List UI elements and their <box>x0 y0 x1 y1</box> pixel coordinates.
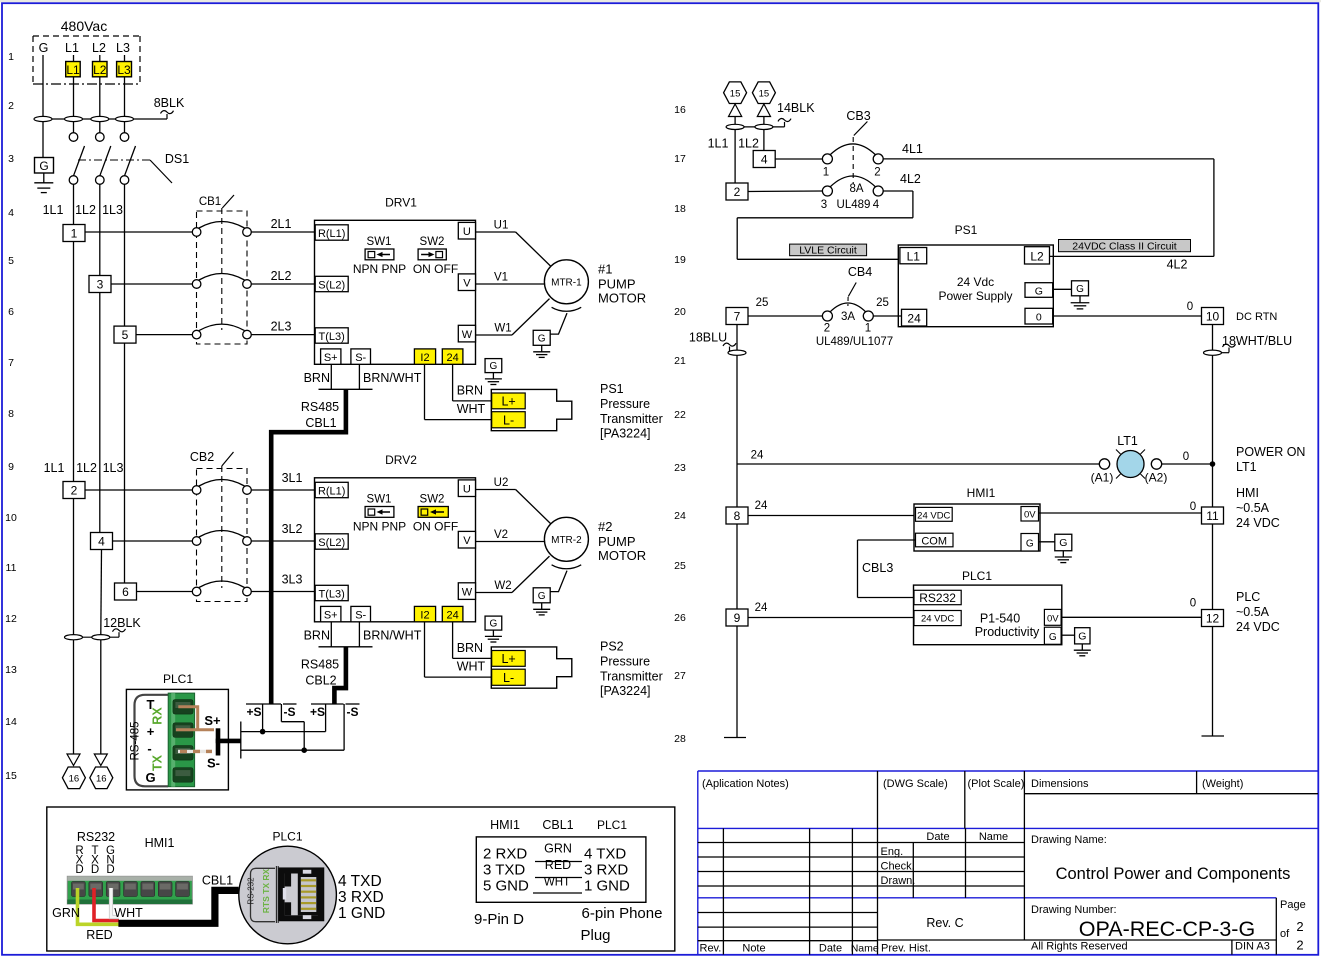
svg-text:5: 5 <box>8 255 14 267</box>
svg-text:Drawn.: Drawn. <box>881 875 916 887</box>
terminal U <box>458 480 475 497</box>
svg-text:I2: I2 <box>420 609 429 621</box>
cable RS485 CBL1 (shielded) <box>271 389 346 704</box>
svg-text:9: 9 <box>734 611 741 625</box>
terminal R(L1) <box>315 225 348 240</box>
svg-text:CB4: CB4 <box>848 265 872 279</box>
svg-text:MTR-2: MTR-2 <box>551 535 582 546</box>
svg-text:Pressure: Pressure <box>600 397 650 411</box>
svg-text:SW2: SW2 <box>420 236 445 248</box>
terminal S(L2) <box>315 276 348 291</box>
svg-text:4: 4 <box>98 534 105 548</box>
wire terminal4-CB2 <box>113 540 193 542</box>
svg-text:D: D <box>106 864 114 876</box>
svg-text:S+: S+ <box>324 609 338 621</box>
wire 0V to terminal 11 <box>1039 512 1201 514</box>
sheet reference 16 (1L1) <box>62 767 85 789</box>
svg-text:6-pin Phone: 6-pin Phone <box>582 905 663 922</box>
24VDC Class II Circuit label <box>1059 240 1191 252</box>
terminal L2 <box>1025 247 1050 264</box>
svg-text:24 VDC: 24 VDC <box>921 614 954 625</box>
CB3 handle <box>854 122 868 136</box>
wire 1L1 column <box>73 184 75 224</box>
svg-text:PLC1: PLC1 <box>163 672 193 686</box>
svg-text:25: 25 <box>674 560 686 572</box>
svg-text:24: 24 <box>446 609 458 621</box>
terminal S+ <box>321 349 341 364</box>
svg-text:NPN PNP: NPN PNP <box>353 262 406 276</box>
svg-text:RS-485: RS-485 <box>130 722 142 761</box>
wire S- lead <box>358 622 360 647</box>
svg-text:21: 21 <box>674 355 686 367</box>
CB3 pole 3-4 <box>822 186 832 196</box>
svg-text:-S: -S <box>284 705 296 719</box>
svg-text:P1-540: P1-540 <box>980 612 1020 626</box>
svg-text:24 VDC: 24 VDC <box>917 510 950 521</box>
svg-text:Name: Name <box>851 943 879 955</box>
svg-text:RS232: RS232 <box>77 830 115 844</box>
svg-text:4 TXD: 4 TXD <box>338 873 382 890</box>
drive chassis G box <box>485 616 502 630</box>
terminal T(L3) <box>315 328 348 343</box>
svg-text:CB3: CB3 <box>846 109 870 123</box>
svg-text:DC RTN: DC RTN <box>1236 311 1277 323</box>
svg-text:+S: +S <box>246 705 261 719</box>
terminal L- (highlighted) <box>492 412 526 428</box>
svg-text:2: 2 <box>824 323 830 335</box>
svg-text:Drawing Number:: Drawing Number: <box>1031 904 1117 916</box>
svg-text:6: 6 <box>8 306 14 318</box>
terminal COM (HMI1) <box>916 533 954 547</box>
cable bead L2 <box>91 116 109 121</box>
svg-text:+: + <box>147 724 155 739</box>
svg-text:GRN: GRN <box>52 906 80 920</box>
svg-text:S-: S- <box>207 756 220 771</box>
cable RS485 CBL2 (shielded) <box>334 647 346 704</box>
svg-text:PS1: PS1 <box>955 223 978 237</box>
wire W2 <box>476 592 512 594</box>
svg-text:COM: COM <box>921 535 947 547</box>
CB4 handle <box>848 283 856 297</box>
svg-text:HMI1: HMI1 <box>145 836 175 850</box>
motor ground lead <box>550 313 567 334</box>
terminal 24 (PS1) <box>902 309 927 326</box>
CB2 pole 3 <box>192 587 201 596</box>
svg-text:4L1: 4L1 <box>902 142 923 156</box>
ground terminal G box <box>35 158 54 174</box>
svg-text:10: 10 <box>5 512 17 524</box>
wire terminal2-CB3 <box>748 190 822 193</box>
svg-text:24: 24 <box>755 602 768 614</box>
svg-text:12BLK: 12BLK <box>103 616 141 630</box>
sheet reference 15 (1L2) <box>752 82 775 104</box>
cable bead L3 <box>116 116 134 121</box>
motor MTR-1 <box>544 260 588 304</box>
svg-text:S(L2): S(L2) <box>318 279 345 291</box>
wire 2L3 <box>251 334 314 336</box>
CB1 handle <box>222 195 234 208</box>
svg-text:1L1: 1L1 <box>44 461 65 475</box>
cable bead 1L1 <box>726 124 744 129</box>
terminal L+ (highlighted) <box>492 393 526 409</box>
svg-text:24 Vdc: 24 Vdc <box>957 275 994 289</box>
svg-text:15: 15 <box>730 88 741 99</box>
svg-text:4L2: 4L2 <box>900 172 921 186</box>
terminal 24 VDC (PLC1) <box>914 611 961 626</box>
480Vac source dashed enclosure <box>33 35 140 37</box>
svg-text:G: G <box>490 361 498 372</box>
svg-text:W: W <box>462 329 473 341</box>
shield bar <box>319 388 373 390</box>
svg-text:3A: 3A <box>841 311 855 323</box>
svg-text:G: G <box>1026 539 1034 550</box>
svg-text:1L2: 1L2 <box>75 203 96 217</box>
terminal 24 VDC (HMI1) <box>916 507 953 521</box>
svg-text:2L1: 2L1 <box>271 217 292 231</box>
wire S+ (BRN) <box>176 707 214 730</box>
right control rail <box>1212 325 1214 737</box>
wire 4L1 <box>883 158 1214 160</box>
terminal I2 (highlighted) <box>414 349 435 364</box>
terminal G (HMI1) <box>1021 534 1039 552</box>
left rail end tick <box>724 737 746 739</box>
svg-text:1L1: 1L1 <box>43 203 64 217</box>
svg-text:1L2: 1L2 <box>76 461 97 475</box>
svg-text:V: V <box>463 277 471 289</box>
svg-text:9-Pin D: 9-Pin D <box>474 911 524 928</box>
svg-text:0: 0 <box>1183 451 1189 463</box>
svg-text:DS1: DS1 <box>165 152 189 166</box>
svg-text:R(L1): R(L1) <box>318 228 346 240</box>
terminal T(L3) <box>315 585 348 600</box>
svg-text:19: 19 <box>674 254 686 266</box>
svg-text:L1: L1 <box>66 63 80 77</box>
svg-text:U: U <box>463 483 471 495</box>
svg-text:9: 9 <box>8 461 14 473</box>
strip slot <box>72 882 86 897</box>
svg-text:G: G <box>39 41 49 55</box>
svg-text:#2: #2 <box>598 519 612 534</box>
terminal tick <box>240 722 242 759</box>
svg-text:MTR-1: MTR-1 <box>551 278 582 289</box>
svg-text:2 RXD: 2 RXD <box>483 846 527 863</box>
svg-text:24: 24 <box>446 352 458 364</box>
wire 2L1 <box>251 231 314 233</box>
svg-text:4 TXD: 4 TXD <box>584 846 626 863</box>
svg-text:G: G <box>1078 630 1086 642</box>
CB1 enclosure dashed <box>197 211 248 344</box>
svg-text:Rev. C: Rev. C <box>926 916 963 930</box>
svg-text:3: 3 <box>821 199 827 211</box>
wire 1L1 below terminal 1 <box>73 242 75 482</box>
svg-text:3 RXD: 3 RXD <box>584 862 628 879</box>
svg-text:Date: Date <box>926 831 949 843</box>
svg-text:UL489/UL1077: UL489/UL1077 <box>816 336 893 348</box>
CB2 handle <box>222 452 234 466</box>
svg-text:CB2: CB2 <box>190 450 214 464</box>
CB2 enclosure dashed <box>197 469 248 602</box>
motor ground symbol <box>541 346 543 352</box>
terminal W <box>458 325 475 342</box>
terminal L3 (highlighted) <box>117 62 132 77</box>
svg-text:CBL3: CBL3 <box>862 561 893 575</box>
wire S- (BRN/WHT) <box>178 750 212 753</box>
wire G-ground (PLC1) <box>1061 634 1075 636</box>
svg-text:Check.: Check. <box>881 861 915 873</box>
wire +S1 drop <box>262 704 264 732</box>
disconnect switch DS1 pole L3 <box>120 133 129 142</box>
svg-text:8BLK: 8BLK <box>154 96 185 110</box>
cable bead G <box>34 116 52 121</box>
svg-text:CBL2: CBL2 <box>305 673 336 687</box>
svg-text:L2: L2 <box>93 63 107 77</box>
terminal L1 (highlighted) <box>66 62 81 77</box>
svg-text:V1: V1 <box>494 271 508 283</box>
svg-text:G: G <box>1035 285 1043 297</box>
svg-text:(Aplication Notes): (Aplication Notes) <box>702 778 789 790</box>
svg-text:PLC: PLC <box>1236 590 1260 604</box>
RJ45 pin <box>301 885 316 887</box>
wire 24 to HMI1 <box>748 515 914 517</box>
terminal S- <box>351 606 371 621</box>
CB2 linkage dashed <box>221 466 223 588</box>
svg-text:15: 15 <box>759 88 770 99</box>
wire 3L2 <box>251 540 314 542</box>
svg-text:24: 24 <box>674 510 686 522</box>
svg-text:RS485: RS485 <box>301 400 339 414</box>
RS-485 green terminal block <box>168 693 194 787</box>
strip slot <box>106 882 120 897</box>
disconnect switch DS1 pole L1 <box>69 133 78 142</box>
strip slot <box>158 882 172 897</box>
terminal 9 <box>726 609 748 626</box>
svg-text:CBL1: CBL1 <box>305 416 336 430</box>
svg-text:3 TXD: 3 TXD <box>483 862 525 879</box>
svg-text:L2: L2 <box>1030 249 1044 263</box>
svg-text:LVLE Circuit: LVLE Circuit <box>799 244 857 256</box>
CB4 pole <box>822 311 832 321</box>
svg-text:28: 28 <box>674 733 686 745</box>
wire I2 to L- (WHT) <box>424 364 426 419</box>
strip slot <box>89 882 103 897</box>
svg-text:Transmitter: Transmitter <box>600 670 663 684</box>
wire 25 left <box>748 315 822 317</box>
PLC1 phone plug circle <box>239 846 337 944</box>
svg-text:18: 18 <box>674 203 686 215</box>
pressure transmitter PS2 body <box>491 647 572 688</box>
sheet reference 16 (1L2) <box>90 767 113 789</box>
svg-text:PLC1: PLC1 <box>272 830 302 844</box>
wire 1L1 drop <box>734 117 736 184</box>
wire 3L3 <box>251 591 314 593</box>
terminal L+ (highlighted) <box>492 651 526 667</box>
svg-text:L3: L3 <box>117 63 131 77</box>
pin table box <box>476 837 646 902</box>
svg-text:TX: TX <box>151 754 165 771</box>
wire to 8BLK tag <box>43 118 167 120</box>
svg-text:8A: 8A <box>849 183 863 195</box>
svg-text:S-: S- <box>355 352 366 364</box>
svg-text:480Vac: 480Vac <box>61 18 107 34</box>
svg-text:2L3: 2L3 <box>271 320 292 334</box>
svg-text:PS1: PS1 <box>600 382 624 396</box>
drive chassis G box <box>485 359 502 373</box>
CB1 pole 1 <box>192 228 201 237</box>
svg-text:WHT: WHT <box>114 906 143 920</box>
terminal 5 <box>114 326 136 343</box>
svg-text:PLC1: PLC1 <box>597 818 627 832</box>
svg-text:#1: #1 <box>598 262 612 277</box>
svg-text:BRN/WHT: BRN/WHT <box>363 371 422 385</box>
CB4 linkage dashed <box>847 297 849 306</box>
svg-text:7: 7 <box>734 309 741 323</box>
svg-text:3L3: 3L3 <box>282 573 303 587</box>
wire G column top <box>42 55 44 158</box>
svg-text:L-: L- <box>503 413 514 427</box>
svg-text:CBL1: CBL1 <box>202 874 233 888</box>
wire 24 to L+ (BRN) <box>452 622 454 659</box>
svg-text:18WHT/BLU: 18WHT/BLU <box>1222 334 1292 348</box>
svg-text:S(L2): S(L2) <box>318 537 345 549</box>
svg-text:W1: W1 <box>494 322 511 334</box>
svg-text:16: 16 <box>674 104 686 116</box>
wire 4L2 <box>883 190 913 192</box>
CB1 pole 3 <box>192 330 201 339</box>
wire GRN <box>78 888 120 924</box>
junction rail row23 <box>1210 461 1216 467</box>
svg-text:L-: L- <box>503 671 514 685</box>
svg-text:10: 10 <box>1206 309 1220 323</box>
svg-text:L1: L1 <box>65 41 79 55</box>
svg-text:0V: 0V <box>1047 614 1059 625</box>
power supply PS1 box <box>898 245 1053 327</box>
wire 1L2 lower <box>100 550 103 635</box>
fuse arrow 1L2 <box>94 754 107 766</box>
terminal G (PLC1) <box>1044 627 1061 644</box>
svg-text:T(L3): T(L3) <box>319 331 345 343</box>
motor ground symbol <box>541 603 543 609</box>
LVLE Circuit label <box>790 244 867 256</box>
svg-text:L+: L+ <box>501 394 515 408</box>
terminal 0V (PLC1) <box>1044 609 1061 625</box>
svg-text:L+: L+ <box>501 652 515 666</box>
right rail end tick <box>1202 735 1225 737</box>
CB3 pole 1-2 <box>822 154 832 164</box>
wire 3L1 <box>251 489 314 491</box>
RJ45 pin <box>301 902 316 904</box>
svg-text:S+: S+ <box>324 352 338 364</box>
wire 1L2 column <box>99 184 101 275</box>
svg-text:25: 25 <box>756 297 769 309</box>
disconnect switch DS1 pole L2 <box>96 133 105 142</box>
PLC1 ground G box <box>1075 628 1090 644</box>
RS232 cable detail box <box>47 807 675 951</box>
wire I2 to L- (WHT) <box>424 622 426 677</box>
RS485 cable stub <box>216 728 221 755</box>
cable bead L1 <box>65 116 83 121</box>
svg-text:G: G <box>1076 284 1084 295</box>
svg-text:Eng.: Eng. <box>881 846 904 858</box>
svg-text:HMI: HMI <box>1236 486 1259 500</box>
wire WHT <box>111 888 119 917</box>
svg-text:RS232: RS232 <box>919 591 956 605</box>
terminal 12 <box>1202 610 1224 627</box>
terminal V <box>458 274 475 291</box>
pressure transmitter PS1 body <box>491 389 572 430</box>
CB1 linkage dashed <box>221 208 223 330</box>
svg-text:SW2: SW2 <box>420 493 445 505</box>
wire 24 to L+ (BRN) <box>452 364 454 401</box>
svg-text:SW1: SW1 <box>367 493 392 505</box>
svg-text:Transmitter: Transmitter <box>600 412 663 426</box>
junction S+ <box>260 729 266 735</box>
svg-text:(DWG Scale): (DWG Scale) <box>883 778 948 790</box>
DS1 linkage dash-dot <box>78 159 150 161</box>
terminal bar +S (CBL2) <box>311 703 344 705</box>
wire 2L2 <box>251 283 314 285</box>
svg-text:G: G <box>490 619 498 630</box>
wire 1L1 lower <box>73 499 75 755</box>
terminal bar +S (CBL1) <box>246 703 281 705</box>
RJ45 pin block <box>298 874 320 916</box>
svg-text:0V: 0V <box>1024 510 1036 521</box>
terminal 3 <box>89 276 111 293</box>
PLC1 ground symbol <box>1081 644 1083 650</box>
svg-text:HMI1: HMI1 <box>490 818 520 832</box>
svg-text:RED: RED <box>545 858 571 872</box>
svg-text:3L2: 3L2 <box>282 522 303 536</box>
RJ45 jack bracket <box>251 868 276 921</box>
svg-text:1: 1 <box>8 51 14 63</box>
svg-text:U: U <box>463 226 471 238</box>
motor MTR-2 base arc <box>552 565 582 569</box>
motor MTR-1 base arc <box>552 307 582 311</box>
svg-text:8: 8 <box>734 509 741 523</box>
svg-text:WHT: WHT <box>544 877 570 889</box>
terminal 2 <box>63 482 85 499</box>
svg-text:BRN: BRN <box>457 384 483 398</box>
svg-text:Prev. Hist.: Prev. Hist. <box>881 943 931 955</box>
wire W1 <box>476 334 512 336</box>
wire 4L1 rail drop <box>1213 159 1215 257</box>
svg-text:BRN: BRN <box>304 628 330 642</box>
svg-text:2: 2 <box>71 483 78 497</box>
svg-text:RED: RED <box>86 928 112 942</box>
wire S- lead <box>358 364 360 389</box>
svg-text:4: 4 <box>873 199 880 211</box>
svg-text:0: 0 <box>1036 311 1042 323</box>
svg-text:23: 23 <box>674 462 686 474</box>
terminal L- (highlighted) <box>492 669 526 685</box>
svg-text:SW1: SW1 <box>367 236 392 248</box>
terminal 6 <box>115 583 137 600</box>
svg-text:12: 12 <box>5 613 17 625</box>
wire 1L2 below terminal 3 <box>99 293 101 533</box>
terminal I2 (highlighted) <box>414 606 435 621</box>
terminal 11 <box>1202 507 1224 524</box>
svg-text:6: 6 <box>122 585 129 599</box>
sheet reference 15 (1L1) <box>724 82 747 104</box>
fuse arrow 1L1 <box>729 104 742 117</box>
svg-text:1 GND: 1 GND <box>338 905 385 922</box>
svg-text:BRN: BRN <box>457 641 483 655</box>
svg-text:Plug: Plug <box>580 927 610 944</box>
svg-text:D: D <box>75 864 83 876</box>
terminal G (PS1) <box>1025 283 1053 298</box>
wire V1 <box>476 283 545 285</box>
HMI1 ground symbol <box>1062 551 1064 557</box>
wire 1L2 drop <box>763 117 765 152</box>
